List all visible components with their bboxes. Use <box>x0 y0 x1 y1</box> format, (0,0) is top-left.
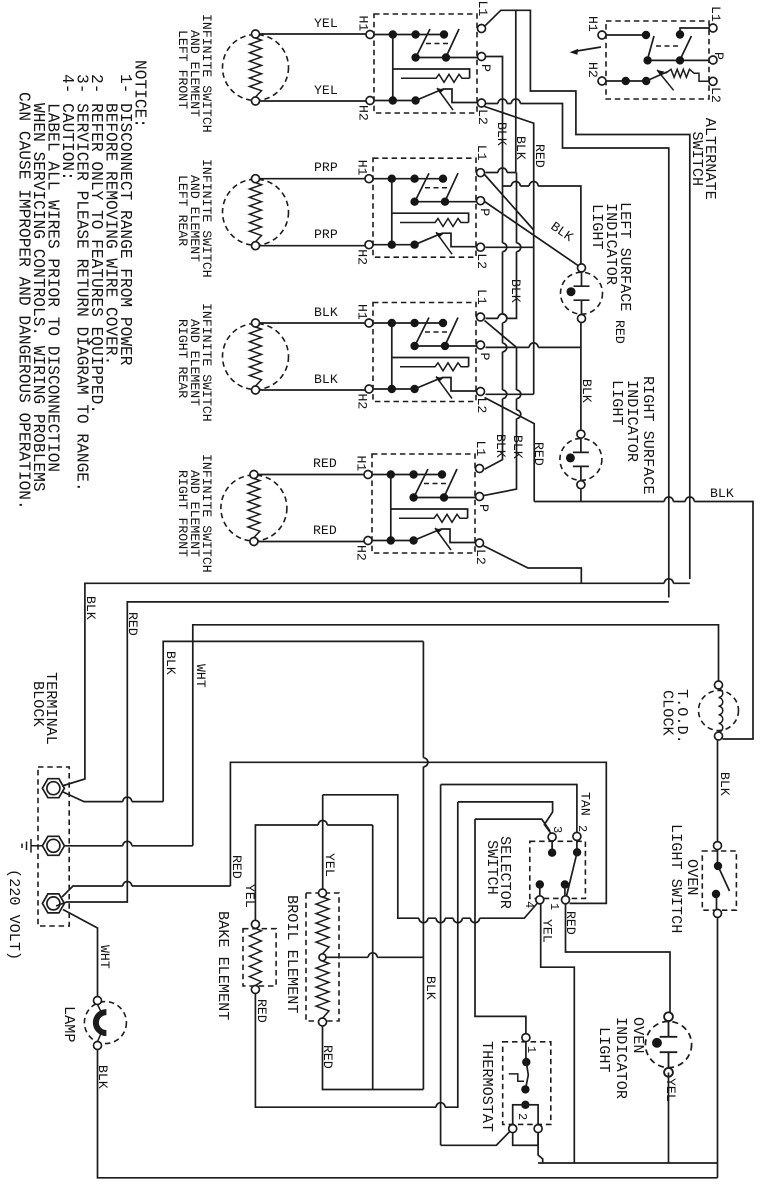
wire BLK2: terminal 1 to broil middle tap <box>163 641 423 801</box>
svg-text:L2: L2 <box>708 87 723 103</box>
hop bump <box>529 182 538 187</box>
svg-text:LEFT FRONT: LEFT FRONT <box>175 30 190 109</box>
S3 L1 diagonal to P junction <box>485 321 517 348</box>
thermostat bottom-left wire to TAN vertical <box>441 1132 510 1146</box>
label INFINITE SWITCH AND ELEMENT LEFT REAR <box>175 159 214 278</box>
arm 2 <box>680 36 691 59</box>
terminal block box <box>38 767 69 926</box>
broil-mid vertical down to broil bottom horizontal <box>372 825 374 1090</box>
lamp bottom to bottom border <box>98 1049 718 1177</box>
H1 terminal <box>598 31 606 39</box>
svg-text:P: P <box>711 52 726 60</box>
busB: from S1 L1 line down, corner left into S2 L1 (hop over busA) <box>486 10 516 172</box>
wire: BLK line to clock bottom (hops 668.8, 689.8) <box>534 502 753 740</box>
oven light switch box <box>702 851 736 910</box>
S3 L2 diagonal down to clock BLK feed <box>485 398 535 502</box>
alternate switch box <box>606 21 709 99</box>
busA branch to left light: horizontal y=186 (hops busB, RED bus) <box>503 186 581 264</box>
busB segment 2: down to S3 L1 (hop over S2 L2 row) <box>486 173 517 319</box>
svg-text:3: 3 <box>550 826 564 833</box>
hop bump <box>123 882 132 887</box>
bake bottom wire: down, right to T3 vertical (hops over 322?No; hops TAN 440.6? ends 457.8) <box>255 802 457 1107</box>
T3 to RED elbow wire (hop over RED vert) <box>62 886 230 897</box>
wire element to H1 (BLK) <box>260 322 366 324</box>
BLK vertical from y=641 down to broil bottom horizontal, hop over 762.3 <box>422 641 424 1089</box>
hop bump <box>498 99 507 104</box>
hop bump <box>436 1103 445 1108</box>
inner solid box <box>513 1105 538 1146</box>
broil bottom wire: down then right along 1089.5 to BLK vertical <box>323 1026 424 1090</box>
hop bump <box>123 797 132 802</box>
wire element to H2 (RED) <box>258 541 364 543</box>
P terminal <box>709 56 717 64</box>
element E4 right front <box>221 471 287 546</box>
NOTICE text block <box>15 60 149 510</box>
arm 1 <box>648 36 654 59</box>
svg-text:BROIL ELEMENT: BROIL ELEMENT <box>283 895 301 1013</box>
terminal T3 hex <box>42 894 64 913</box>
svg-text:CLOCK: CLOCK <box>659 690 677 736</box>
svg-text:LIGHT: LIGHT <box>608 380 626 426</box>
svg-text:H2: H2 <box>585 62 600 78</box>
selector switch box <box>530 841 586 898</box>
element E3 right rear <box>223 319 289 394</box>
svg-text:BAKE ELEMENT: BAKE ELEMENT <box>214 911 232 1020</box>
hop bumps on T4 horizontal <box>471 918 480 923</box>
svg-text:YEL: YEL <box>322 853 337 877</box>
svg-text:LEFT REAR: LEFT REAR <box>175 175 190 246</box>
S2 L1 diagonal to RED bus <box>485 175 534 231</box>
svg-text:BLK: BLK <box>548 219 576 245</box>
svg-text:2: 2 <box>515 1113 529 1120</box>
hop bump <box>511 99 520 104</box>
hop bump <box>511 182 520 187</box>
bake top wire: up, right to broil-mid vertical (hop over broil-top vert) <box>255 825 372 920</box>
svg-text:BLK: BLK <box>423 976 438 1000</box>
svg-text:OVEN: OVEN <box>629 1017 647 1053</box>
svg-text:BLK: BLK <box>314 372 338 387</box>
hop bump <box>664 497 673 502</box>
svg-text:RIGHT REAR: RIGHT REAR <box>175 319 190 398</box>
terminal T1 hex <box>42 779 64 798</box>
svg-text:THERMOSTAT: THERMOSTAT <box>478 1041 496 1132</box>
hop bump <box>368 953 377 957</box>
element E1 left front <box>223 30 289 105</box>
svg-text:BLOCK: BLOCK <box>29 681 47 727</box>
svg-text:PRP: PRP <box>314 227 338 242</box>
RED bus: from S1 L2 diag down to S3 L2 row <box>485 107 534 395</box>
filament horseshoe <box>96 1012 107 1033</box>
ground symbol <box>22 839 42 853</box>
thermostat top wire from T3 net elbow <box>475 819 526 1034</box>
wire element to H1 (PRP) <box>260 178 366 180</box>
pointer arrow <box>574 47 601 52</box>
svg-text:(220 VOLT): (220 VOLT) <box>5 869 23 960</box>
thermostat box <box>503 1042 551 1125</box>
svg-text:BLK: BLK <box>508 279 523 303</box>
bake element box <box>243 929 276 986</box>
infinite switch U2 <box>355 145 493 269</box>
svg-text:RED: RED <box>563 911 578 935</box>
arm from dot2 to T1 <box>567 852 578 896</box>
terminal T2 hex <box>42 836 64 855</box>
wire element to H1 (RED) <box>258 474 364 476</box>
svg-text:BLK: BLK <box>493 434 508 458</box>
svg-text:BLK: BLK <box>314 305 338 320</box>
H2 terminal <box>598 77 606 85</box>
svg-text:SWITCH: SWITCH <box>688 131 706 186</box>
svg-text:BLK: BLK <box>163 651 178 675</box>
svg-text:RED: RED <box>313 523 337 538</box>
svg-text:BLK: BLK <box>579 379 594 403</box>
hop bump <box>318 821 327 826</box>
svg-text:RED: RED <box>229 855 244 879</box>
T4 wire to broil-top net: diag + horiz (hops) + up <box>323 795 538 918</box>
label INFINITE SWITCH AND ELEMENT LEFT FRONT <box>175 14 214 133</box>
wire: S1 L1 staircase to main BLK vertical <box>484 10 690 579</box>
left surface indicator light <box>561 264 603 323</box>
busB segment 3: P junction down to S4 P (hops L2 row and diag) <box>483 347 517 495</box>
wire: S4 L2 to BLK main <box>484 546 582 584</box>
S2 L2 row to RED bus <box>486 246 534 248</box>
L1 terminal <box>709 24 717 32</box>
wire RED vertical from T3 elbow <box>230 762 606 903</box>
resistor zigzag <box>666 69 710 81</box>
broil middle tap to BLK vertical (hop over 372.7) <box>326 956 423 958</box>
bottom YEL horizontal to oven light switch vertical <box>538 1162 717 1164</box>
svg-text:BLK: BLK <box>494 122 509 146</box>
svg-text:WHT: WHT <box>97 945 112 969</box>
hop bump <box>529 343 538 348</box>
svg-text:YEL: YEL <box>663 1078 678 1102</box>
T1 wire down (RED) to oven indicator light <box>566 904 671 1016</box>
switch arm <box>718 866 730 891</box>
svg-text:SWITCH: SWITCH <box>483 840 501 895</box>
busA: S1 P down to L1 of S4, with bumps at crossing rows <box>485 57 503 470</box>
hop bump on vertical <box>423 758 428 767</box>
right surface indicator light <box>560 430 602 489</box>
middle row <box>648 59 709 61</box>
T3 wires from elbows <box>458 802 553 834</box>
wire element to H2 (BLK) <box>260 389 366 391</box>
L2 terminal <box>709 77 717 85</box>
wire: S1 L2 to staircase (hops busA,busB) <box>486 104 669 598</box>
hop bump <box>685 497 694 502</box>
S2 P diagonal to left light (BLK) <box>485 202 582 268</box>
svg-text:L1: L1 <box>708 6 723 22</box>
infinite switch U3 <box>355 289 493 413</box>
svg-text:LIGHT: LIGHT <box>588 204 606 250</box>
T4 wire down (YEL) <box>541 904 575 1163</box>
element E2 left rear <box>223 175 289 250</box>
wire: RED horizontal to terminal block T3 <box>56 602 669 906</box>
H2 row <box>606 80 646 82</box>
svg-text:YEL: YEL <box>540 919 555 943</box>
svg-text:TAN: TAN <box>578 792 593 816</box>
step symbol <box>509 1074 524 1081</box>
broil element box <box>306 893 339 1021</box>
top row wire <box>606 34 646 36</box>
svg-text:BLK: BLK <box>513 136 528 160</box>
label INFINITE SWITCH AND ELEMENT RIGHT FRONT <box>175 454 214 573</box>
svg-text:BLK: BLK <box>710 486 734 501</box>
wire element to H2 (PRP) <box>260 245 366 247</box>
svg-text:RED: RED <box>532 144 547 168</box>
clock bottom to switch top (BLK) <box>717 740 719 842</box>
svg-text:1: 1 <box>524 1046 538 1053</box>
L1 link <box>680 28 709 31</box>
svg-text:RED: RED <box>612 320 627 344</box>
wire: main BLK horizontal to terminal block <box>62 583 690 786</box>
svg-text:INDICATOR: INDICATOR <box>612 1017 630 1099</box>
infinite switch U4 <box>354 441 492 565</box>
svg-text:YEL: YEL <box>314 83 338 98</box>
svg-text:CAN CAUSE IMPROPER AND DANGERO: CAN CAUSE IMPROPER AND DANGEROUS OPERATI… <box>15 92 33 510</box>
thermostat bottom-right wire down to YEL horizontal <box>538 1133 543 1163</box>
S3 P row to lights junction (hop over RED bus) <box>486 323 581 430</box>
svg-text:BLK: BLK <box>83 596 98 620</box>
svg-text:LIGHT: LIGHT <box>595 1027 613 1073</box>
switch bottom down to bottom border <box>717 917 719 1177</box>
wire element to H2 (YEL) <box>260 100 367 102</box>
svg-text:BLK: BLK <box>717 772 732 796</box>
T1 to BLK2 wire (hop over RED) <box>62 792 163 802</box>
label INFINITE SWITCH AND ELEMENT RIGHT REAR <box>175 303 214 422</box>
svg-text:WHT: WHT <box>193 664 208 688</box>
wire WHT: terminal 2 to clock top <box>193 625 719 846</box>
svg-text:RED: RED <box>125 612 140 636</box>
arm <box>525 1062 528 1089</box>
broil top wire up to YEL net (T4) <box>322 795 324 889</box>
svg-text:BLK: BLK <box>510 435 525 459</box>
svg-text:LAMP: LAMP <box>60 1006 78 1042</box>
svg-text:PRP: PRP <box>314 160 338 175</box>
oven light bottom wire down to bottom horizontal <box>668 1073 670 1164</box>
svg-text:H1: H1 <box>585 16 600 32</box>
bottom arm <box>646 72 668 82</box>
T2 to WHT wire (hop over RED) <box>64 845 193 847</box>
S3 L2 row to RED bus bottom <box>486 393 534 395</box>
coupling dashes <box>656 45 678 47</box>
T3 to lamp (WHT) <box>63 910 98 997</box>
TAN wire: broil-middle vertical up, right, down to T2 <box>441 785 577 833</box>
right light bottom to BLK line <box>580 489 582 501</box>
wire element to H1 (YEL) <box>260 33 367 35</box>
svg-text:RED: RED <box>313 456 337 471</box>
svg-text:LIGHT SWITCH: LIGHT SWITCH <box>667 824 685 933</box>
arrow through arm <box>657 70 674 90</box>
svg-text:RIGHT FRONT: RIGHT FRONT <box>175 470 190 557</box>
infinite switch U1 <box>356 1 494 125</box>
svg-text:RED: RED <box>531 442 546 466</box>
svg-text:YEL: YEL <box>314 16 338 31</box>
svg-text:1: 1 <box>547 903 561 910</box>
TAN vertical: from 784.5 down to 1145.3 (hopped at 918 and 1107 by others) <box>440 785 442 1146</box>
